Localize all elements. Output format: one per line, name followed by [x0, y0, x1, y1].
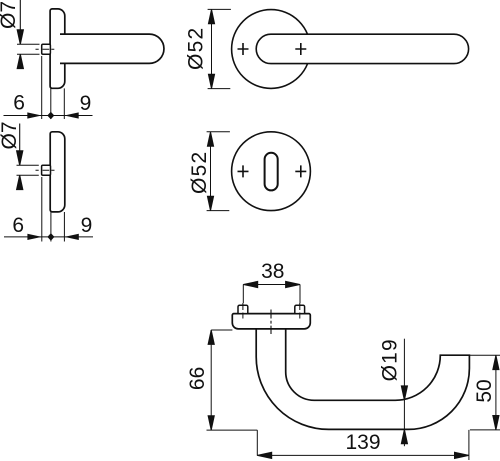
screw mark left (escutcheon) [238, 165, 249, 177]
svg-text:38: 38 [261, 260, 284, 283]
dimension Ø19 [401, 339, 407, 447]
screw centerline right [299, 303, 301, 319]
dimension Ø7 view 2 [17, 124, 39, 190]
key square side view 2 [42, 165, 51, 175]
keyhole slot [265, 153, 278, 191]
svg-text:9: 9 [81, 214, 93, 237]
svg-text:66: 66 [186, 367, 209, 390]
dimension 6 / 9 view 2 [4, 177, 93, 242]
handle bar side view (top left) [60, 34, 164, 63]
handle profile outline (bottom view) [256, 329, 469, 430]
key centerline 2 [36, 169, 55, 171]
rose R2 escutcheon side view (mid left) [50, 132, 65, 212]
svg-text:Ø52: Ø52 [184, 27, 207, 70]
spindle centerline 1 [36, 48, 55, 50]
screw mark right (front view 1) [295, 43, 306, 55]
svg-text:6: 6 [13, 92, 25, 115]
svg-text:9: 9 [80, 92, 92, 115]
rose plate (bottom view) [232, 314, 310, 329]
dimension Ø52 escutcheon [207, 132, 230, 211]
dimension Ø7 view 1 [17, 0, 40, 69]
screw centerline left [242, 303, 244, 319]
screw right (bottom view) [295, 305, 305, 313]
lever handle front view [256, 34, 468, 63]
plate centerline [270, 310, 272, 335]
screw left (bottom view) [238, 305, 248, 313]
screw mark right (escutcheon) [295, 165, 306, 177]
svg-text:6: 6 [12, 214, 24, 237]
escutcheon front view circle [232, 132, 311, 211]
svg-text:139: 139 [345, 431, 380, 454]
dimension 139 [257, 430, 469, 460]
dimension Ø52 view 3 [208, 9, 231, 88]
dimension 38 [243, 281, 300, 303]
dimension 66 [207, 330, 258, 430]
dimension 50 [469, 355, 500, 430]
spindle square side view 1 [42, 44, 51, 54]
svg-text:Ø7: Ø7 [0, 1, 20, 29]
dimension 6 / 9 view 1 [4, 56, 93, 119]
rose R1 side view (top left) [50, 9, 65, 88]
svg-text:50: 50 [473, 379, 496, 402]
svg-text:Ø7: Ø7 [0, 121, 21, 149]
screw mark left (front view 1) [238, 43, 249, 55]
rose R1 front view circle [232, 10, 311, 89]
svg-text:Ø52: Ø52 [188, 151, 211, 194]
svg-text:Ø19: Ø19 [379, 338, 402, 381]
